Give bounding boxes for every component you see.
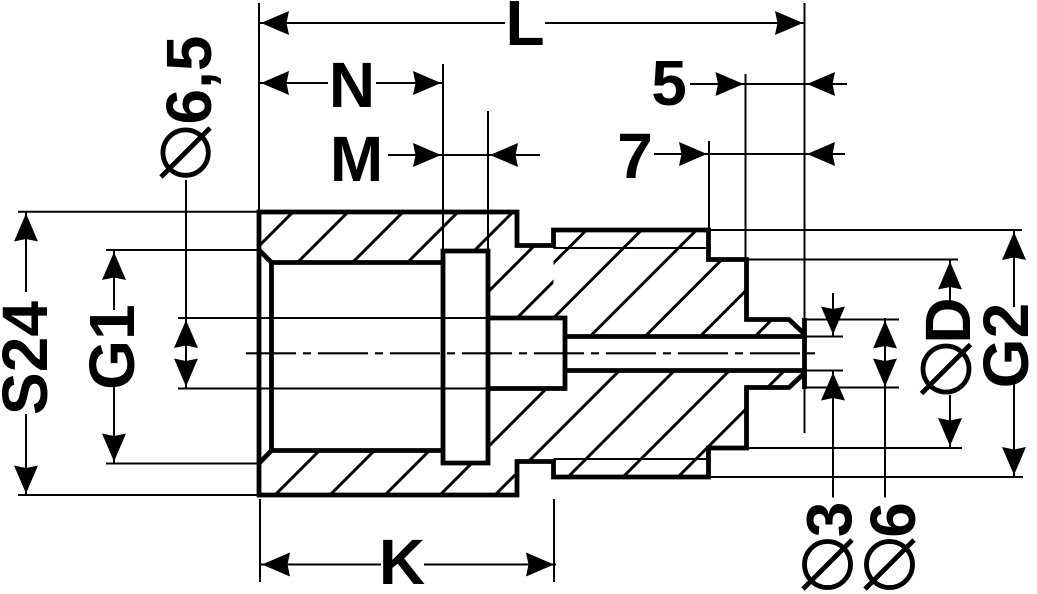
svg-text:K: K [379, 526, 425, 594]
arrow d6 up [873, 321, 897, 349]
body upper outline [259, 212, 805, 337]
arrow 5 left [807, 72, 835, 96]
svg-text:M: M [330, 123, 383, 195]
arrow N left [261, 71, 289, 95]
arrow K right [526, 553, 554, 577]
ext line G2 top [709, 229, 1023, 231]
arrow S24 up [14, 214, 38, 242]
cavity right wall / groove left edge [441, 263, 446, 451]
svg-text:G1: G1 [76, 304, 148, 389]
arrow G2 down [1002, 447, 1026, 475]
dim line G1 [113, 250, 115, 310]
arrow M right [413, 143, 441, 167]
ext line G1 bottom [106, 463, 259, 465]
arrow d6,5 down [174, 359, 198, 387]
arrow dD down [938, 418, 962, 446]
body lower outline [259, 371, 805, 496]
ext line 7 [708, 141, 710, 230]
thread root line G2 top [554, 247, 709, 249]
groove right edge / bore 6,5 left wall [486, 318, 491, 389]
svg-text:6,5: 6,5 [153, 36, 225, 125]
left face line across thread mouth [257, 250, 262, 463]
svg-text:S24: S24 [0, 301, 61, 415]
arrow 7 left [807, 142, 835, 166]
ext line left (L,N) [258, 3, 260, 211]
thick interior edges [259, 250, 805, 463]
arrow S24 down [14, 466, 38, 494]
dim line L [259, 22, 505, 24]
svg-text:N: N [329, 49, 375, 121]
symbol d6 [867, 542, 913, 588]
svg-text:G2: G2 [970, 303, 1037, 388]
svg-text:L: L [505, 0, 544, 59]
arrow K left [262, 553, 290, 577]
symbol d6,5 [163, 130, 208, 175]
dim line N [259, 82, 328, 84]
ext line M right [487, 111, 489, 251]
hatch fill lower wall [259, 371, 805, 496]
ext line G1 top [106, 249, 259, 251]
arrow d6,5 up [174, 320, 198, 348]
arrow L right [775, 11, 803, 35]
chamfer circle edge [269, 263, 274, 451]
arrow M left [490, 143, 518, 167]
ext line S24 bottom [18, 494, 259, 496]
ext line N right [442, 64, 444, 251]
ext line d3 top [805, 336, 844, 338]
arrow 7 right [679, 142, 707, 166]
ext line dD bottom [747, 447, 963, 449]
ext line G2 bottom [709, 476, 1024, 478]
centerline [246, 352, 822, 354]
dim line 5 [690, 83, 847, 85]
ext line S24 top [18, 211, 259, 213]
ext line K right [553, 499, 555, 582]
ext line K left [259, 499, 261, 582]
bore step 6,5 to 3 [563, 337, 568, 371]
diameter symbols [161, 128, 971, 589]
ext line d6 top [805, 319, 900, 321]
ext line dD top [747, 259, 959, 261]
dim line M [388, 154, 540, 156]
dim line S24 [25, 212, 27, 293]
nose end face [802, 318, 807, 389]
arrow d3 up [821, 373, 845, 401]
dim line dD [949, 260, 951, 302]
dim line d6 [884, 318, 886, 498]
arrow G2 up [1002, 232, 1026, 260]
dim line 7 [654, 153, 845, 155]
arrow 5 right [716, 72, 744, 96]
arrow G1 up [102, 252, 126, 280]
arrow dD up [938, 262, 962, 290]
ext line 5 [745, 74, 747, 260]
arrow L left [261, 11, 289, 35]
ext line d6,5 top [178, 317, 488, 319]
svg-text:7: 7 [617, 120, 653, 192]
arrow N right [413, 71, 441, 95]
dim line d6,5 [185, 180, 187, 389]
dim line G2 [1013, 230, 1015, 307]
svg-text:6: 6 [857, 502, 929, 538]
dim line d3 [832, 293, 834, 337]
ext line d6 bottom [805, 387, 900, 389]
symbol d3 [805, 542, 851, 588]
arrow d3 down [821, 307, 845, 335]
dim line K [260, 564, 381, 566]
hatch fill upper-right wall [554, 230, 805, 337]
svg-text:3: 3 [794, 502, 866, 538]
ext line d3 bottom [805, 370, 844, 372]
symbol dD [923, 346, 969, 392]
thread root line G2 bottom [554, 458, 709, 460]
svg-text:5: 5 [651, 47, 687, 119]
ext line right (L,5,7) [804, 3, 806, 433]
hatch fill upper-left wall [259, 212, 554, 318]
ext line d6,5 bottom [178, 388, 488, 390]
arrow d6 down [873, 359, 897, 387]
arrow G1 down [102, 434, 126, 462]
